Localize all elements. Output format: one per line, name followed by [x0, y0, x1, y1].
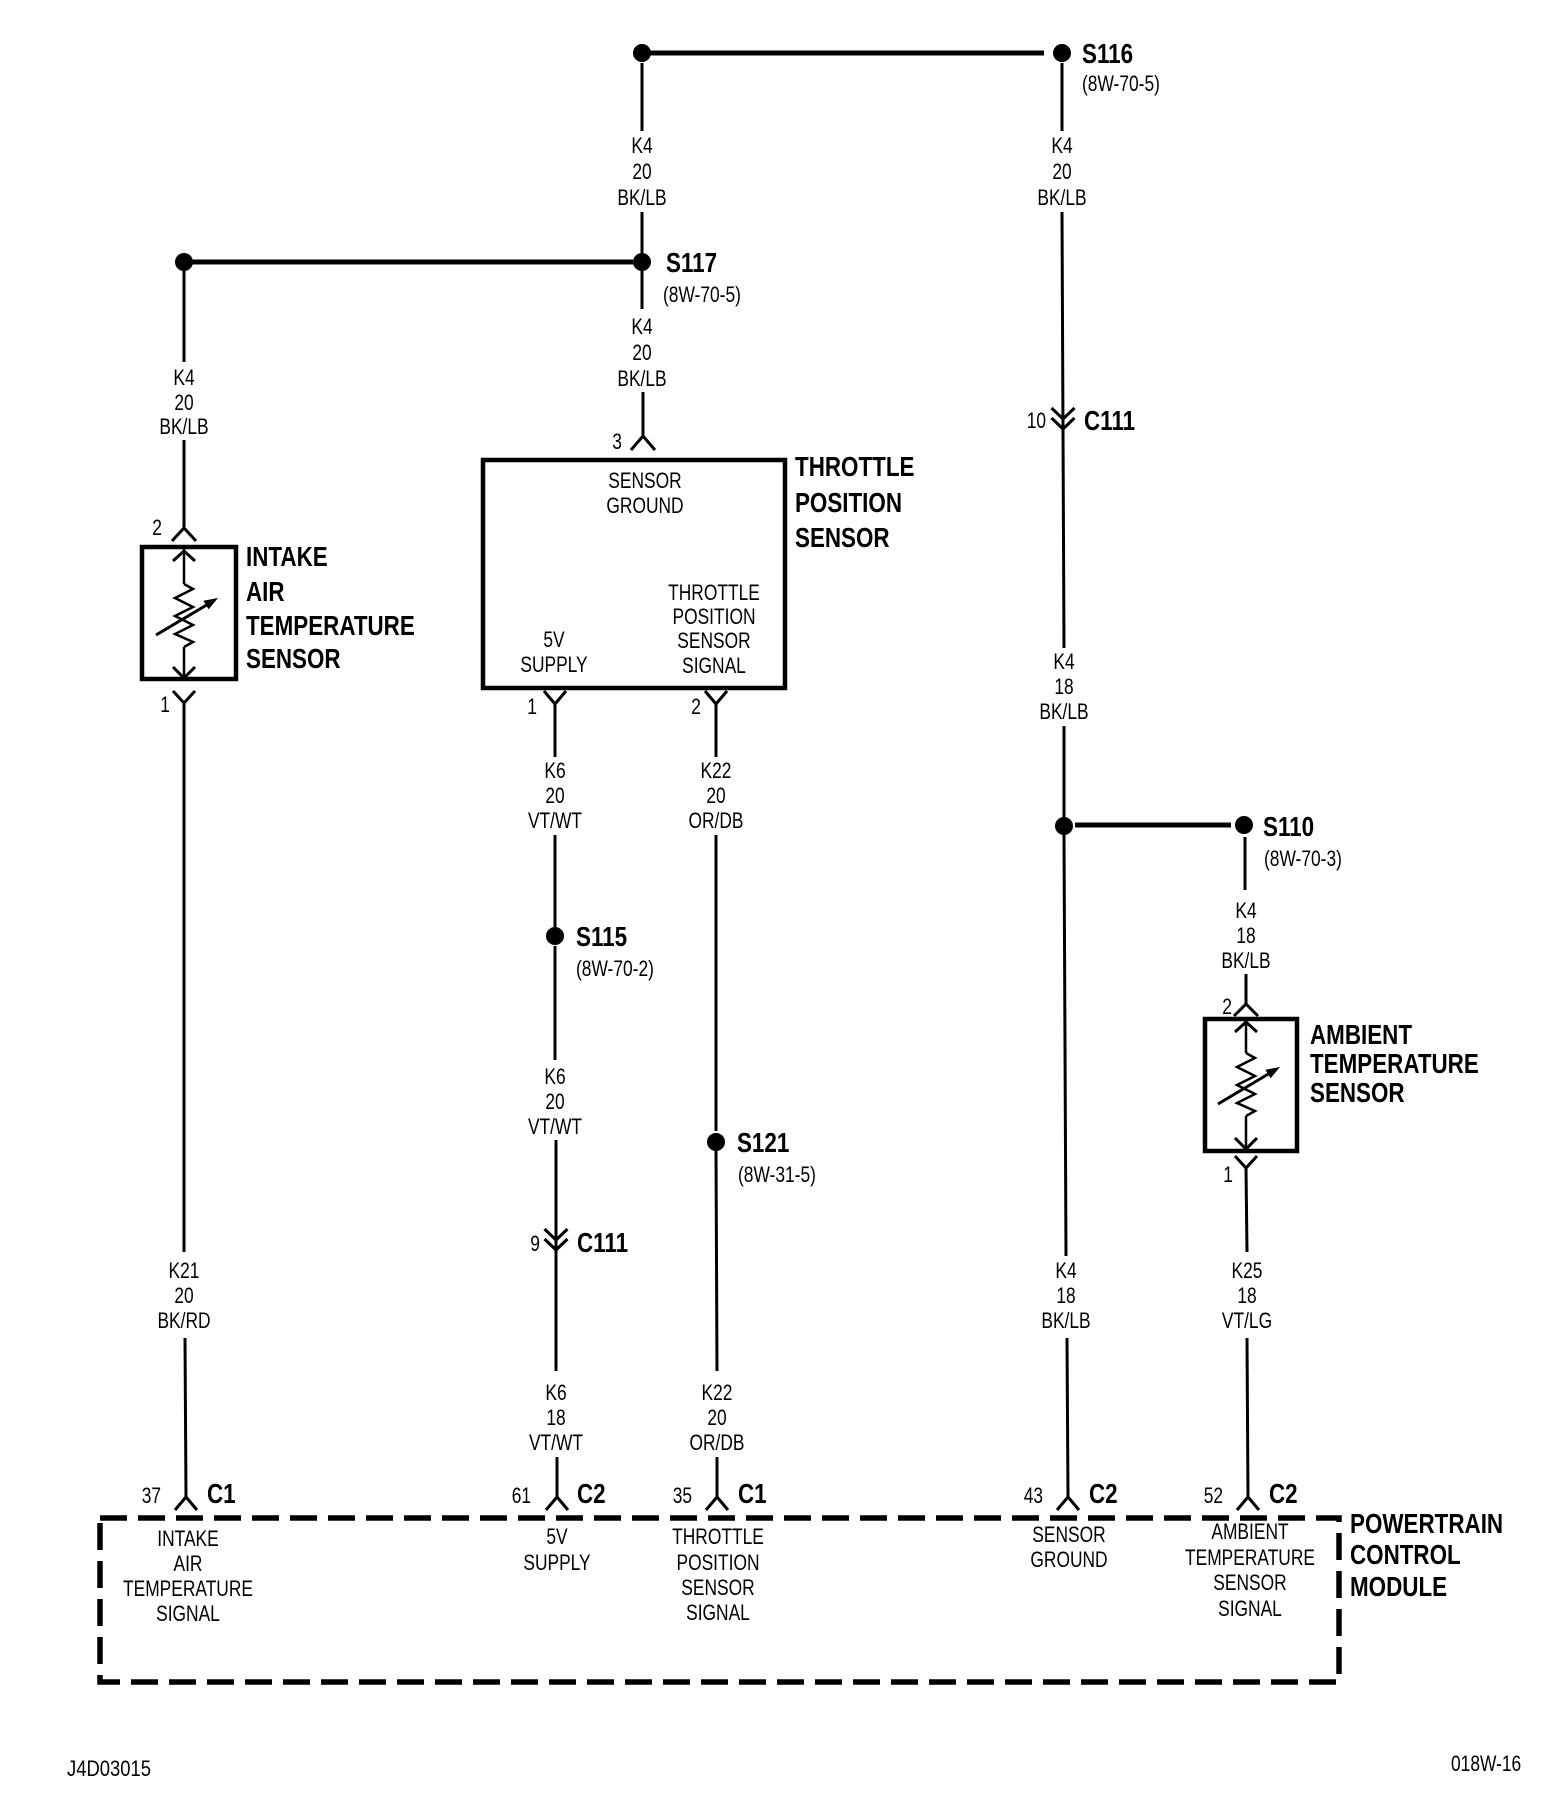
svg-text:10: 10	[1027, 408, 1046, 433]
svg-text:K4: K4	[1053, 649, 1074, 674]
wire into TPS pin 3	[642, 392, 645, 436]
svg-text:5V: 5V	[546, 1524, 568, 1549]
svg-text:SENSOR: SENSOR	[608, 468, 681, 493]
svg-text:20: 20	[1052, 159, 1071, 184]
pin 1 terminal of intake sensor	[173, 691, 195, 703]
wire into S110 junction	[1063, 726, 1066, 818]
svg-text:9: 9	[530, 1231, 540, 1256]
svg-text:K25: K25	[1232, 1258, 1263, 1283]
svg-text:2: 2	[691, 694, 701, 719]
wire label K6 20 VT/WT	[528, 758, 582, 833]
svg-text:VT/WT: VT/WT	[528, 808, 582, 833]
svg-text:K6: K6	[545, 1380, 566, 1405]
wire label K4 18 BK/LB (right)	[1039, 649, 1088, 724]
svg-text:20: 20	[545, 783, 564, 808]
wire: top splice bus (S116)	[650, 51, 1044, 56]
wire into PCM pin 35	[716, 1457, 719, 1497]
label (8W-70-3) for S110	[1264, 846, 1342, 871]
svg-text:37: 37	[142, 1483, 161, 1508]
svg-text:K4: K4	[631, 314, 652, 339]
ambient temperature sensor box	[1205, 1019, 1297, 1151]
svg-text:OR/DB: OR/DB	[690, 1430, 745, 1455]
svg-text:SENSOR: SENSOR	[681, 1575, 754, 1600]
svg-text:INTAKE: INTAKE	[157, 1526, 219, 1551]
thermistor element (intake sensor)	[156, 549, 218, 678]
label pin 43	[1024, 1483, 1043, 1508]
svg-text:2: 2	[152, 515, 162, 540]
label 5V SUPPLY (PCM)	[523, 1524, 591, 1575]
splice S115	[546, 927, 564, 945]
label (8W-70-2) for S115	[576, 956, 654, 981]
pin 2 terminal of intake sensor	[172, 528, 196, 541]
svg-text:VT/LG: VT/LG	[1222, 1308, 1272, 1333]
wire below S110	[1244, 837, 1247, 890]
component name INTAKE AIR TEMPERATURE SENSOR	[246, 541, 415, 674]
wire below S117 left junction	[183, 271, 186, 362]
svg-text:S110: S110	[1263, 811, 1314, 842]
svg-text:K6: K6	[544, 1064, 565, 1089]
label connector C2 (pin 52)	[1269, 1478, 1298, 1509]
component name POWERTRAIN CONTROL MODULE	[1350, 1508, 1503, 1602]
label C111 (pin 10)	[1084, 405, 1135, 436]
label (8W-31-5) for S121	[738, 1162, 816, 1187]
svg-text:S116: S116	[1082, 38, 1133, 69]
svg-text:SIGNAL: SIGNAL	[1218, 1596, 1282, 1621]
svg-text:(8W-70-2): (8W-70-2)	[576, 956, 654, 981]
svg-text:K4: K4	[631, 133, 652, 158]
splice S116	[1053, 44, 1071, 62]
wire label K6 20 VT/WT below S115	[528, 1064, 582, 1139]
pin 35 terminal at PCM	[706, 1497, 728, 1510]
svg-text:BK/LB: BK/LB	[617, 185, 666, 210]
junction at S110 branch	[1055, 817, 1073, 835]
label THROTTLE POSITION SENSOR SIGNAL (PCM)	[672, 1524, 764, 1625]
svg-text:43: 43	[1024, 1483, 1043, 1508]
label SENSOR GROUND (PCM)	[1030, 1522, 1107, 1572]
svg-text:THROTTLE: THROTTLE	[668, 580, 760, 605]
svg-text:POSITION: POSITION	[677, 1550, 760, 1575]
wire label K4 18 BK/LB (ambient branch)	[1221, 898, 1270, 973]
label J4D03015	[67, 1756, 151, 1781]
label pin 2 of ambient sensor	[1222, 994, 1232, 1019]
svg-text:K4: K4	[1235, 898, 1256, 923]
svg-text:C111: C111	[577, 1227, 628, 1258]
svg-text:K21: K21	[169, 1258, 200, 1283]
svg-text:VT/WT: VT/WT	[528, 1114, 582, 1139]
svg-text:TEMPERATURE: TEMPERATURE	[1185, 1545, 1315, 1570]
wire into intake sensor pin 2	[183, 440, 186, 528]
wire below S121	[716, 1150, 717, 1371]
thermistor element (ambient sensor)	[1218, 1021, 1280, 1149]
svg-text:K6: K6	[544, 758, 565, 783]
label connector C1 (pin 35)	[738, 1478, 767, 1509]
label S117	[666, 247, 717, 278]
label pin 9	[530, 1231, 540, 1256]
svg-text:1: 1	[160, 692, 170, 717]
component name AMBIENT TEMPERATURE SENSOR	[1310, 1019, 1479, 1108]
svg-text:K4: K4	[1051, 133, 1072, 158]
svg-text:C2: C2	[577, 1478, 606, 1509]
pin 52 terminal at PCM	[1237, 1497, 1259, 1510]
pin 3 terminal of throttle position sensor	[631, 436, 655, 450]
label pin 1 of TPS	[527, 694, 537, 719]
wire K25 from ambient sensor	[1246, 1168, 1247, 1252]
intake air temperature sensor box	[142, 547, 236, 679]
svg-text:THROTTLE: THROTTLE	[795, 451, 915, 482]
svg-text:18: 18	[1236, 923, 1255, 948]
svg-text:SIGNAL: SIGNAL	[682, 653, 746, 678]
svg-text:TEMPERATURE: TEMPERATURE	[246, 610, 415, 641]
wire label K4 20 BK/LB (intake branch)	[159, 365, 208, 439]
pin 61 terminal at PCM	[546, 1497, 568, 1510]
label pin 1 of ambient sensor	[1223, 1162, 1233, 1187]
junction: top of K4 riser	[633, 44, 651, 62]
label pin 2 of TPS	[691, 694, 701, 719]
label pin 3	[612, 429, 622, 454]
label connector C1 (pin 37)	[207, 1478, 236, 1509]
in-line connector C111 pin 9	[545, 1229, 568, 1250]
svg-text:C1: C1	[207, 1478, 236, 1509]
svg-text:J4D03015: J4D03015	[67, 1756, 151, 1781]
svg-text:SENSOR: SENSOR	[1213, 1570, 1286, 1595]
label pin 37	[142, 1483, 161, 1508]
svg-text:20: 20	[632, 340, 651, 365]
wire K21 from intake sensor	[183, 703, 186, 1252]
wire label K25 18 VT/LG	[1222, 1258, 1272, 1333]
wire through connector C111 pin 9	[555, 1140, 558, 1371]
svg-text:018W-16: 018W-16	[1451, 1751, 1521, 1776]
wire label K4 20 BK/LB (right)	[1037, 133, 1086, 210]
svg-text:18: 18	[1056, 1283, 1075, 1308]
svg-text:(8W-70-3): (8W-70-3)	[1264, 846, 1342, 871]
powertrain control module box (dashed)	[100, 1518, 1339, 1682]
svg-text:BK/LB: BK/LB	[1221, 948, 1270, 973]
wire into splice S121	[715, 835, 718, 1131]
svg-text:BK/RD: BK/RD	[157, 1308, 210, 1333]
svg-text:BK/LB: BK/LB	[159, 414, 208, 439]
svg-text:C2: C2	[1269, 1478, 1298, 1509]
label SENSOR GROUND	[606, 468, 683, 518]
svg-text:K22: K22	[702, 1380, 733, 1405]
svg-text:SENSOR: SENSOR	[1032, 1522, 1105, 1547]
wire label K4 20 BK/LB	[617, 133, 666, 210]
svg-text:INTAKE: INTAKE	[246, 541, 328, 572]
svg-text:S115: S115	[576, 921, 627, 952]
svg-text:MODULE: MODULE	[1350, 1571, 1447, 1602]
svg-text:C111: C111	[1084, 405, 1135, 436]
wire label K4 20 BK/LB below S117	[617, 314, 666, 391]
wire K21 into PCM pin 37	[185, 1338, 186, 1497]
svg-text:S121: S121	[737, 1127, 789, 1158]
wire below S117	[641, 271, 644, 309]
wire label K4 18 BK/LB lower	[1041, 1258, 1090, 1333]
wire through connector C111 pin 10	[1062, 212, 1064, 648]
svg-text:AMBIENT: AMBIENT	[1310, 1019, 1412, 1050]
svg-text:TEMPERATURE: TEMPERATURE	[1310, 1048, 1479, 1079]
label S115	[576, 921, 627, 952]
wire label K22 20 OR/DB lower	[690, 1380, 745, 1455]
svg-text:20: 20	[632, 159, 651, 184]
svg-text:SENSOR: SENSOR	[1310, 1077, 1405, 1108]
svg-text:POSITION: POSITION	[795, 487, 902, 518]
wire below junction to PCM	[1064, 835, 1066, 1256]
wire label K6 18 VT/WT	[529, 1380, 583, 1455]
label connector C2 (pin 61)	[577, 1478, 606, 1509]
label (8W-70-5) for S116	[1082, 71, 1160, 96]
svg-text:(8W-31-5): (8W-31-5)	[738, 1162, 816, 1187]
svg-text:SENSOR: SENSOR	[246, 643, 341, 674]
svg-text:POSITION: POSITION	[673, 604, 756, 629]
label THROTTLE POSITION SENSOR SIGNAL (in box)	[668, 580, 760, 678]
svg-text:20: 20	[706, 783, 725, 808]
svg-text:THROTTLE: THROTTLE	[672, 1524, 764, 1549]
svg-text:SIGNAL: SIGNAL	[156, 1601, 220, 1626]
svg-text:18: 18	[546, 1405, 565, 1430]
wire label K22 20 OR/DB	[689, 758, 744, 833]
label 5V SUPPLY (in box)	[520, 627, 588, 677]
label C111 (pin 9)	[577, 1227, 628, 1258]
svg-text:35: 35	[673, 1483, 692, 1508]
svg-text:SENSOR: SENSOR	[795, 522, 890, 553]
svg-text:61: 61	[512, 1483, 531, 1508]
svg-text:20: 20	[545, 1089, 564, 1114]
wire below S116	[1061, 63, 1064, 131]
svg-text:AIR: AIR	[246, 576, 285, 607]
svg-text:52: 52	[1204, 1483, 1223, 1508]
label 018W-16	[1451, 1751, 1521, 1776]
splice S110	[1235, 816, 1253, 834]
wire label K21 20 BK/RD	[157, 1258, 210, 1333]
splice S121	[707, 1133, 725, 1151]
label pin 61	[512, 1483, 531, 1508]
svg-text:5V: 5V	[543, 627, 565, 652]
svg-text:(8W-70-5): (8W-70-5)	[1082, 71, 1160, 96]
svg-text:K22: K22	[701, 758, 732, 783]
svg-text:(8W-70-5): (8W-70-5)	[663, 282, 741, 307]
label S116	[1082, 38, 1133, 69]
wire K4 riser upper segment	[641, 63, 644, 131]
label pin 1 of intake sensor	[160, 692, 170, 717]
svg-text:SUPPLY: SUPPLY	[520, 652, 588, 677]
svg-text:BK/LB: BK/LB	[617, 366, 666, 391]
svg-text:1: 1	[1223, 1162, 1233, 1187]
svg-text:BK/LB: BK/LB	[1037, 185, 1086, 210]
svg-text:GROUND: GROUND	[1030, 1547, 1107, 1572]
wire into splice S115	[554, 835, 557, 927]
wire: S117 splice bus	[184, 260, 633, 265]
throttle position sensor box	[483, 460, 785, 688]
svg-text:K4: K4	[173, 365, 194, 390]
label S121	[737, 1127, 789, 1158]
label AMBIENT TEMPERATURE SENSOR SIGNAL (PCM)	[1185, 1519, 1315, 1621]
svg-text:OR/DB: OR/DB	[689, 808, 744, 833]
pin 37 terminal at PCM	[175, 1497, 197, 1510]
svg-text:18: 18	[1054, 674, 1073, 699]
label pin 35	[673, 1483, 692, 1508]
pin 1 terminal of TPS	[544, 691, 566, 704]
pin 2 terminal of ambient sensor	[1234, 1004, 1258, 1016]
svg-text:20: 20	[707, 1405, 726, 1430]
svg-text:C2: C2	[1089, 1478, 1118, 1509]
svg-text:POWERTRAIN: POWERTRAIN	[1350, 1508, 1503, 1539]
wire: branch to splice S110	[1075, 823, 1231, 828]
svg-text:S117: S117	[666, 247, 717, 278]
wire from TPS pin 2	[715, 704, 718, 757]
svg-text:18: 18	[1237, 1283, 1256, 1308]
wire K4 riser into splice S117	[641, 212, 644, 253]
label S110	[1263, 811, 1314, 842]
svg-text:SENSOR: SENSOR	[677, 628, 750, 653]
svg-text:20: 20	[174, 390, 193, 415]
svg-text:K4: K4	[1055, 1258, 1076, 1283]
svg-text:GROUND: GROUND	[606, 493, 683, 518]
svg-text:1: 1	[527, 694, 537, 719]
svg-text:VT/WT: VT/WT	[529, 1430, 583, 1455]
label connector C2 (pin 43)	[1089, 1478, 1118, 1509]
svg-text:3: 3	[612, 429, 622, 454]
pin 2 terminal of TPS	[705, 691, 727, 704]
svg-text:AIR: AIR	[174, 1551, 203, 1576]
label pin 2 of intake sensor	[152, 515, 162, 540]
svg-text:BK/LB: BK/LB	[1039, 699, 1088, 724]
svg-text:2: 2	[1222, 994, 1232, 1019]
pin 1 terminal of ambient sensor	[1235, 1156, 1257, 1168]
svg-text:SIGNAL: SIGNAL	[686, 1600, 750, 1625]
label pin 10	[1027, 408, 1046, 433]
label pin 52	[1204, 1483, 1223, 1508]
in-line connector C111 pin 10	[1052, 408, 1075, 429]
svg-text:20: 20	[174, 1283, 193, 1308]
wire into ambient sensor pin 2	[1245, 974, 1248, 1004]
svg-text:C1: C1	[738, 1478, 767, 1509]
wire below S115	[554, 946, 557, 1060]
component name THROTTLE POSITION SENSOR	[795, 451, 915, 553]
wire into PCM pin 61	[556, 1457, 559, 1497]
wire into PCM pin 43	[1067, 1338, 1068, 1497]
label (8W-70-5) for S117	[663, 282, 741, 307]
svg-text:BK/LB: BK/LB	[1041, 1308, 1090, 1333]
svg-text:CONTROL: CONTROL	[1350, 1539, 1461, 1570]
wire K25 into PCM pin 52	[1247, 1338, 1248, 1497]
pin 43 terminal at PCM	[1057, 1497, 1079, 1510]
svg-text:SUPPLY: SUPPLY	[523, 1550, 591, 1575]
junction: left end of S117 bus	[175, 253, 193, 271]
label INTAKE AIR TEMPERATURE SIGNAL (PCM)	[123, 1526, 253, 1626]
svg-text:TEMPERATURE: TEMPERATURE	[123, 1576, 253, 1601]
wire from TPS pin 1	[554, 704, 557, 757]
splice S117	[633, 253, 651, 271]
svg-text:AMBIENT: AMBIENT	[1211, 1519, 1288, 1544]
